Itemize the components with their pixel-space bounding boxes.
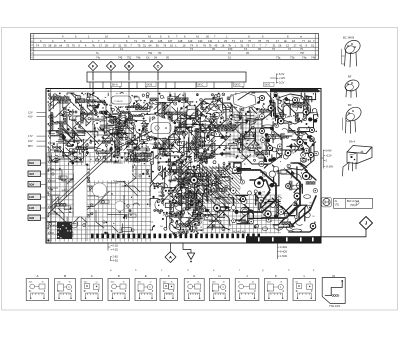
edge connector dark bar [246,236,321,242]
long diagonal trace [48,131,152,214]
ground plane grid bottom-left [47,153,151,242]
svg-text:TW4 4204: TW4 4204 [329,305,341,308]
node J diamond [360,217,373,230]
detail box L [293,274,316,301]
svg-text:-8-16V: -8-16V [326,165,334,169]
detail box J [235,274,259,301]
large solder pads bottom-right [191,172,316,228]
svg-text:C: C [91,274,93,278]
svg-text:150: 150 [228,47,233,51]
left supply labels top [28,111,46,119]
copper traces top-left [48,92,150,163]
svg-text:4-4Ω4: 4-4Ω4 [280,246,287,249]
transistor package T2 label [348,75,352,79]
svg-text:17V: 17V [28,134,33,138]
svg-text:D: D [118,274,120,278]
svg-text:131: 131 [208,39,213,43]
ground plane grid bottom-middle [203,195,281,234]
solder pads right column [260,96,315,158]
svg-text:7R: 7R [158,51,161,55]
svg-text:4Ω7: 4Ω7 [29,172,35,176]
svg-text:8PV: 8PV [28,144,33,148]
svg-text:(7/8)x4: (7/8)x4 [350,205,358,207]
connector strip bus bar [87,72,246,82]
svg-text:SK-C: SK-C [197,84,203,87]
detail box E [135,274,157,301]
svg-text:+12V: +12V [326,154,332,158]
svg-text:126: 126 [158,39,163,43]
svg-text:6+8V: 6+8V [326,149,332,153]
svg-text:2-8Ω: 2-8Ω [113,256,119,259]
detail box K [264,274,287,301]
svg-text:6Ω1: 6Ω1 [29,161,35,165]
voltage labels right of strip [270,72,285,84]
dark top edge segment [270,89,318,92]
detail box C [81,274,103,301]
svg-text:751: 751 [148,51,153,55]
speaker impedance callout box [334,198,373,208]
node E diamond [106,61,115,70]
svg-text:DA-4: DA-4 [349,140,355,144]
transistor package T1 [342,38,363,67]
svg-text:A: A [36,274,38,278]
svg-text:6-4Ω9: 6-4Ω9 [280,251,287,254]
svg-text:6-1Ω: 6-1Ω [113,245,119,248]
svg-text:A: A [248,34,250,38]
svg-text:1-5Ω9: 1-5Ω9 [280,255,287,258]
socket labels SK-A SK-B SK-C SK-D [111,82,274,86]
svg-text:74a: 74a [302,56,307,60]
ground plane grid center [226,112,262,158]
transistor package T1 label BC148 [343,36,354,40]
node A diamond below board [165,243,176,263]
svg-text:4-5Ω: 4-5Ω [113,260,119,263]
svg-text:J: J [365,221,368,226]
svg-text:B: B [128,64,131,68]
svg-text:12V: 12V [28,111,33,115]
printed circuit board outline [46,89,321,244]
edge connector fingers [91,234,260,239]
svg-text:4k: 4k [223,282,225,284]
svg-text:K: K [275,274,277,278]
wire from node E to board [110,71,112,88]
output labels group 3 [278,243,288,259]
svg-text:T1 BU05: T1 BU05 [114,101,123,103]
copper traces core [111,117,215,162]
output labels group 2 [111,256,119,263]
svg-text:42V: 42V [28,115,33,119]
copper traces right-bottom [230,161,317,232]
transistor package T2 [343,78,360,97]
left terminal tags [28,160,46,220]
copper traces bottom-middle [150,161,231,231]
copper traces mid-column [168,160,203,237]
detail box M [322,274,345,308]
wire from node J to board [312,230,366,237]
svg-text:130: 130 [198,39,203,43]
svg-text:751: 751 [127,56,132,60]
svg-text:F: F [168,274,170,278]
voltage labels right of board [321,149,334,169]
board bottom tiny text [233,230,245,234]
reference tick row [110,268,315,272]
thick power traces bottom-right [240,170,316,225]
svg-text:6,3V: 6,3V [279,72,285,76]
svg-text:0,2V: 0,2V [279,80,285,84]
transistor package T3 [343,104,364,133]
svg-text:4-2Ω: 4-2Ω [113,249,119,252]
svg-text:1Ω5: 1Ω5 [29,206,35,210]
svg-text:+12V: +12V [279,76,285,80]
detail box B [55,274,76,301]
svg-text:10V: 10V [28,139,33,143]
power device package DA-4 label [349,140,355,144]
svg-text:SK-D: SK-D [234,84,240,87]
svg-text:3Ω6: 3Ω6 [29,216,35,220]
left supply labels middle [28,134,46,148]
diagonal hatch region [188,166,240,203]
svg-text:BF: BF [348,75,352,79]
copper traces right-top [250,92,318,162]
large trace loops right side [196,92,314,170]
svg-text:w: w [300,35,302,38]
svg-text:17Ω: 17Ω [335,204,340,207]
board long interconnect wires [46,89,184,231]
svg-text:A: A [169,254,172,259]
detail box D [108,274,130,301]
svg-text:1Ω5: 1Ω5 [29,195,35,199]
svg-text:E: E [110,64,113,68]
transistor package T3 label [348,103,352,107]
strip tap wires to board [90,82,243,89]
svg-text:4Ω+4Ω 4Ω: 4Ω+4Ω 4Ω [233,230,245,234]
power device package DA-4 [343,146,373,177]
output labels group 1 [108,243,118,252]
svg-text:4k: 4k [252,282,254,284]
detail box F [160,274,178,301]
svg-text:128: 128 [178,39,183,43]
copper traces top-middle [149,93,256,163]
detail box H [209,274,229,301]
svg-text:74b: 74b [311,56,316,60]
left edge pads column [47,97,60,234]
svg-text:C: C [157,64,160,68]
svg-text:4k: 4k [197,282,199,284]
detail box G [184,274,204,301]
svg-text:BC 148 B: BC 148 B [343,36,354,40]
svg-text:73a: 73a [276,56,281,60]
wire from node C to board [157,71,159,88]
wire from node B to board [128,71,130,88]
svg-text:129: 129 [188,39,193,43]
svg-text:4k: 4k [280,282,282,284]
svg-text:757: 757 [300,51,305,55]
wire from node F to board [92,71,94,88]
svg-text:Ch: Ch [146,56,150,60]
svg-text:SK-A: SK-A [112,84,118,87]
node F diamond [88,61,97,70]
copper traces bottom-left-sparse [49,162,151,236]
svg-text:BC: BC [348,103,352,107]
svg-text:73b: 73b [290,56,295,60]
earth symbol below board [183,243,195,262]
svg-text:5Ω4: 5Ω4 [29,183,35,187]
loudspeaker plug symbol [322,197,332,207]
node C diamond [153,61,162,70]
svg-text:E: E [145,274,147,278]
svg-text:SK-B: SK-B [146,84,152,87]
svg-text:B: B [64,274,66,278]
parts list table [31,34,319,60]
svg-text:SK-E: SK-E [264,84,270,87]
svg-text:74b: 74b [136,56,141,60]
traces over ground grid [47,166,141,232]
dark component block bottom-left [57,208,72,239]
node B diamond [124,61,133,70]
svg-text:745: 745 [118,56,123,60]
svg-text:H: H [218,274,220,278]
detail box A [26,274,48,301]
board white regions [74,92,260,241]
svg-text:G: G [193,274,195,278]
svg-text:127: 127 [168,39,173,43]
svg-text:74c: 74c [96,56,101,60]
